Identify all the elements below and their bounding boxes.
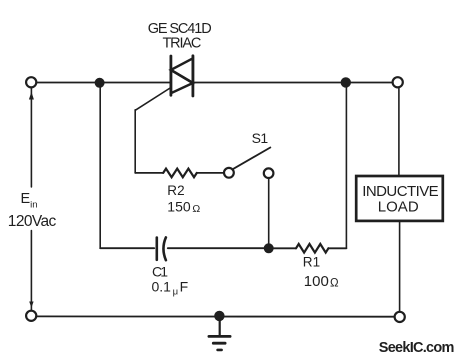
triac U1: lower triangle — [171, 70, 193, 93]
wire: triac gate lead diagonal — [135, 88, 171, 111]
svg-text:120Vac: 120Vac — [8, 213, 57, 230]
triac U1: upper triangle — [171, 58, 193, 83]
switch S1: blade — [234, 148, 271, 169]
wire: R1 to riser — [328, 247, 346, 249]
svg-text:TRIAC: TRIAC — [163, 36, 202, 52]
ground: bar 3 — [218, 349, 222, 352]
svg-text:150Ω: 150Ω — [167, 199, 200, 215]
ground: bar 2 — [213, 342, 225, 345]
svg-text:C1: C1 — [152, 263, 168, 279]
node: ground junction dot — [214, 311, 224, 321]
svg-text:INDUCTIVE: INDUCTIVE — [362, 183, 439, 200]
wire: throw contact down to junction — [268, 178, 270, 243]
svg-text:GE SC41D: GE SC41D — [148, 21, 212, 37]
wire: bottom rail — [37, 315, 395, 317]
wire: load terminal to load box — [398, 88, 400, 175]
wire: branch from top rail down to C1 wire — [99, 87, 101, 248]
triac U1: left bar MT1 — [169, 56, 172, 95]
svg-text:100Ω: 100Ω — [304, 273, 339, 290]
ground: stub — [219, 321, 221, 336]
arrow: down arrowhead on left rail — [29, 302, 33, 308]
wire: C1 branch left segment — [100, 247, 154, 249]
terminal node: bottom-right load terminal — [395, 312, 405, 322]
svg-text:R 2: R 2 — [167, 183, 184, 198]
wire: R2 to switch pole — [197, 172, 224, 174]
wire: junction to R1 — [274, 247, 296, 249]
wire: top rail from triac to load terminal — [193, 82, 392, 84]
resistor R2 — [163, 169, 197, 178]
resistor R1 — [296, 244, 328, 253]
svg-text:0.1μF: 0.1μF — [152, 279, 189, 298]
inductive load box — [356, 176, 443, 221]
svg-text:SeekIC.com: SeekIC.com — [379, 340, 455, 356]
wire: gate branch vertical — [134, 110, 136, 173]
svg-text:LOAD: LOAD — [378, 198, 419, 215]
wire: gate branch to R2 — [135, 172, 163, 174]
triac U1: right bar MT2 — [191, 56, 194, 96]
svg-text:S1: S1 — [252, 130, 269, 146]
svg-text:R 1: R 1 — [303, 255, 320, 270]
capacitor C1: straight plate — [156, 238, 159, 260]
wire: top rail from source to triac — [37, 82, 170, 84]
terminal node: top-left source terminal — [26, 77, 36, 87]
terminal node: top-right load terminal — [393, 77, 403, 87]
ground: bar 1 — [209, 335, 230, 338]
arrow: up arrowhead on left rail — [29, 92, 34, 100]
svg-text:Ein: Ein — [21, 191, 38, 211]
switch S1: throw contact — [264, 168, 274, 178]
wire: left rail lower segment — [30, 231, 32, 311]
wire: riser to top rail — [345, 83, 347, 249]
wire: load box to bottom terminal — [399, 221, 401, 311]
switch S1: pole contact — [224, 168, 234, 178]
terminal node: bottom-left source terminal — [26, 311, 36, 321]
node: junction dot switch/C1/R1 — [264, 243, 274, 253]
node: junction dot top-right — [341, 77, 351, 87]
node: junction dot top-left — [95, 78, 105, 88]
capacitor C1: curved plate — [163, 237, 165, 260]
wire: C1 to junction — [168, 247, 264, 249]
wire: left rail upper segment — [30, 89, 32, 187]
